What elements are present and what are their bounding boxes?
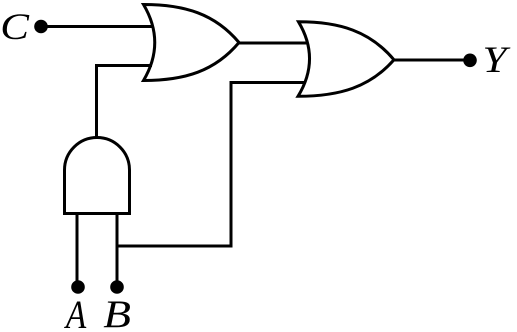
svg-text:C: C [0,6,30,48]
terminal dot B [110,280,124,294]
terminal dot C [34,20,48,34]
and-gate U1 (points up) [65,138,130,214]
svg-text:B: B [103,293,131,332]
wire OR1 output to OR2 input [239,42,308,45]
wire OR2 output to Y [394,59,470,62]
or-gate OR2 [298,22,394,97]
terminal dot A [71,280,85,294]
wire AND output vertical [97,66,153,138]
terminal dot Y [463,54,477,68]
svg-text:A: A [63,292,87,332]
wire input B vertical [116,214,119,288]
wire B branch to OR2 [117,83,304,247]
or-gate OR1 [144,5,240,81]
wire C input [41,25,153,28]
wire input A vertical [76,214,79,288]
svg-text:Y: Y [483,39,511,80]
